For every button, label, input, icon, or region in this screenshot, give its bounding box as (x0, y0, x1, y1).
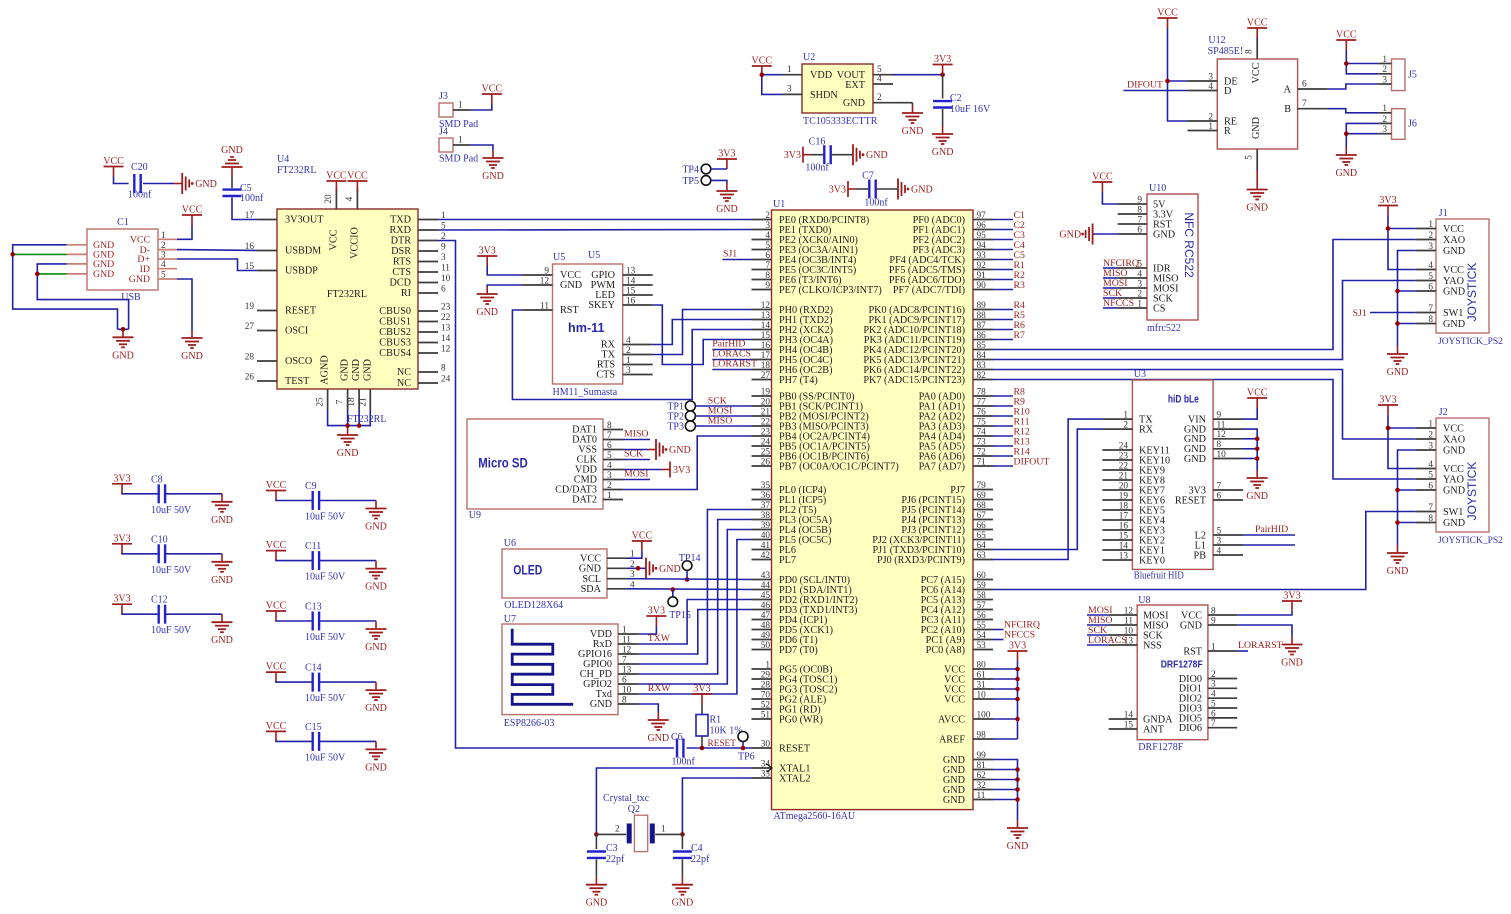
svg-text:TEST: TEST (285, 376, 310, 387)
U3 pin 18 KEY5 (1102, 509, 1132, 511)
U5 pin 2 TX (623, 354, 653, 356)
junction (1255, 437, 1260, 442)
U5 pin 13 GPIO (623, 274, 653, 276)
pin 10 DCD (418, 282, 438, 284)
svg-text:JOYSTICK_PS2: JOYSTICK_PS2 (1438, 337, 1503, 347)
U3 pin 20 KEY7 (1102, 489, 1132, 491)
svg-text:GND: GND (1443, 518, 1465, 529)
svg-text:GND: GND (482, 171, 504, 182)
svg-text:6: 6 (1211, 709, 1216, 719)
svg-text:VCC: VCC (1251, 62, 1262, 83)
svg-text:PD7 (T0): PD7 (T0) (779, 645, 818, 656)
svg-text:J6: J6 (1408, 119, 1417, 130)
wire U9 VDD to 3V3 (623, 469, 662, 471)
U1 pin 28 PG3 (TOSC2) (752, 688, 772, 690)
junction (700, 746, 705, 751)
junction (1395, 488, 1400, 493)
U1 pin 83 PK6 (ADC14/PCINT22) (973, 369, 993, 371)
U1 pin 25 PB6 (OC1B/PCINT6) (752, 455, 772, 457)
svg-text:VCC: VCC (266, 601, 287, 612)
net C3 (U1) (993, 239, 1013, 241)
svg-text:93: 93 (977, 251, 987, 261)
svg-text:47: 47 (761, 611, 771, 621)
svg-text:64: 64 (977, 541, 987, 551)
svg-text:GND: GND (1387, 367, 1409, 378)
svg-text:11: 11 (1217, 421, 1226, 431)
svg-text:CBUS0: CBUS0 (379, 306, 411, 317)
U1 pin 51 PG0 (WR) (752, 718, 772, 720)
net LORARST (U8 RST) (1237, 650, 1248, 652)
U1 pin 31 VCC (973, 688, 993, 690)
ground (J1) (1397, 346, 1399, 354)
ground (C4) (681, 877, 683, 885)
wire U10 GND to ground (1093, 233, 1118, 235)
U1 pin 62 GND (973, 779, 993, 781)
U1 pin 47 PD4 (ICP1) (752, 619, 772, 621)
svg-text:PF7 (ADC7/TDI): PF7 (ADC7/TDI) (893, 285, 965, 296)
svg-text:94: 94 (977, 241, 987, 251)
svg-text:C8: C8 (151, 474, 163, 485)
svg-text:8: 8 (622, 696, 627, 706)
U1 pin 64 PJ1 (TXD3/PCINT10) (973, 549, 993, 551)
U1 pin 79 PJ7 (973, 489, 993, 491)
U1 pin 66 PJ3 (PCINT12) (973, 529, 993, 531)
svg-text:OSCO: OSCO (285, 356, 312, 367)
junction (1344, 131, 1349, 136)
svg-text:GND: GND (1443, 246, 1465, 257)
svg-text:D: D (1224, 86, 1231, 97)
svg-text:GND: GND (351, 359, 362, 381)
net SCK (U8) (1087, 634, 1109, 636)
net SCK (U10) (1103, 297, 1118, 299)
svg-text:11: 11 (540, 302, 549, 312)
ground (C8) (221, 494, 223, 502)
svg-text:GND: GND (1246, 203, 1268, 214)
svg-text:LORARST: LORARST (1238, 640, 1283, 651)
svg-text:74: 74 (977, 427, 987, 437)
svg-text:69: 69 (977, 491, 987, 501)
wire U1 PJ1 to U3 RX (993, 429, 1102, 549)
wire 3V3 to U5 VCC (487, 266, 522, 275)
svg-text:C6: C6 (671, 732, 683, 743)
svg-text:DRF1278F: DRF1278F (1161, 659, 1203, 671)
connector J6 (1392, 109, 1406, 140)
svg-text:89: 89 (977, 301, 987, 311)
svg-text:71: 71 (977, 457, 987, 467)
svg-text:2: 2 (615, 825, 620, 835)
svg-text:4: 4 (161, 260, 166, 270)
svg-text:GND: GND (340, 359, 351, 381)
svg-text:10uF 16V: 10uF 16V (950, 104, 991, 115)
U12 pin 3 (1188, 80, 1218, 82)
svg-text:VCC: VCC (632, 531, 653, 542)
U5 pin 12 GND (523, 284, 553, 286)
U10 pin 9 5V (1118, 203, 1147, 205)
wire C6 to RESET pin (687, 747, 752, 749)
svg-text:8: 8 (765, 271, 770, 281)
wire U9 VSS to ground (623, 449, 648, 451)
U1 pin 58 PC5 (A13) (973, 599, 993, 601)
U3 pin 22 KEY9 (1102, 469, 1132, 471)
U3 pin 17 KEY4 (1102, 519, 1132, 521)
U1 pin 99 GND (973, 759, 993, 761)
svg-text:12: 12 (441, 345, 451, 355)
U12 pin 8 VCC (1256, 38, 1258, 59)
svg-text:ESP8266-03: ESP8266-03 (504, 718, 555, 729)
ground (C9) (375, 501, 377, 509)
wire U5 RST to U1 PH2 (512, 310, 751, 400)
svg-text:11: 11 (977, 791, 986, 801)
svg-text:GND: GND (590, 699, 612, 710)
ground (U12) (1256, 170, 1258, 182)
svg-text:OLED128X64: OLED128X64 (504, 600, 563, 611)
junction (35, 272, 40, 277)
wire C1 pin5 to ground (177, 279, 192, 330)
U8 pin 4 DIO2 (1208, 697, 1237, 699)
svg-text:GND: GND (211, 575, 233, 586)
svg-text:C9: C9 (305, 481, 317, 492)
net SJ1 (U1 PE4) (722, 259, 751, 261)
svg-text:9: 9 (544, 267, 549, 277)
svg-text:GND: GND (579, 564, 601, 575)
U1 pin 11 GND (973, 799, 993, 801)
svg-text:3: 3 (441, 253, 446, 263)
wire J1 GND pins to ground (1398, 251, 1416, 347)
svg-text:1: 1 (1382, 55, 1387, 65)
svg-text:C2: C2 (950, 93, 962, 104)
svg-text:76: 76 (977, 407, 987, 417)
ground (C2) (942, 126, 944, 134)
pin 5 RXD (418, 229, 438, 231)
svg-text:C13: C13 (305, 602, 322, 613)
svg-text:SJ1: SJ1 (1353, 308, 1367, 319)
wire U12 B to J6 pin1 (1328, 109, 1379, 113)
svg-text:FT232RL: FT232RL (347, 414, 386, 425)
U3 pin 10 GND (1213, 458, 1243, 460)
U1 pin 12 PH0 (RXD2) (752, 309, 772, 311)
svg-text:GND: GND (669, 445, 691, 456)
capacitor C15 (276, 740, 313, 741)
svg-text:3V3: 3V3 (113, 594, 130, 605)
svg-text:PB7 (OC0A/OC1C/PCINT7): PB7 (OC0A/OC1C/PCINT7) (779, 461, 899, 472)
svg-text:17: 17 (1119, 511, 1129, 521)
svg-text:RXD: RXD (389, 225, 411, 236)
svg-text:11: 11 (441, 264, 450, 274)
wire U1 GND rail (993, 760, 1018, 821)
U1 pin 50 PD7 (T0) (752, 649, 772, 651)
junction (1015, 797, 1020, 802)
svg-text:VCC: VCC (266, 480, 287, 491)
svg-text:5: 5 (1217, 526, 1222, 536)
svg-text:R3: R3 (1014, 280, 1026, 291)
svg-text:26: 26 (245, 373, 255, 383)
net MOSI (U9 CMD) (623, 479, 650, 481)
U1 pin 27 PH7 (T4) (752, 379, 772, 381)
svg-text:PL7: PL7 (779, 555, 796, 566)
U1 pin 86 PK3 (ADC11/PCINT19) (973, 339, 993, 341)
svg-text:24: 24 (1119, 441, 1129, 451)
svg-text:VCC: VCC (1443, 265, 1464, 276)
svg-text:4: 4 (1208, 82, 1213, 92)
junction (1015, 787, 1020, 792)
wire VCC to U3 VIN (1243, 408, 1257, 419)
U8 pin 13 NSS (1109, 644, 1138, 646)
U1 pin 87 PK2 (ADC10/PCINT18) (973, 329, 993, 331)
svg-text:18: 18 (1119, 501, 1129, 511)
svg-text:GND: GND (362, 359, 373, 381)
ground (C13) (375, 621, 377, 629)
U12 pin 2 (1188, 120, 1218, 122)
U1 pin 45 PD2 (RXD1/INT2) (752, 599, 772, 601)
svg-text:FT232RL: FT232RL (277, 165, 316, 176)
svg-text:17: 17 (761, 351, 771, 361)
capacitor C16 (811, 154, 824, 156)
svg-text:77: 77 (977, 397, 987, 407)
svg-text:SW1: SW1 (1443, 507, 1463, 518)
connector J4 (SMD Pad) (439, 138, 453, 152)
svg-text:73: 73 (977, 437, 987, 447)
U8 pin 3 DIO1 (1208, 687, 1237, 689)
U1 pin 59 PC6 (A14) (973, 589, 993, 591)
wire U5 SKEY to U1 PH3 (653, 305, 752, 365)
svg-text:100nf: 100nf (805, 163, 829, 174)
wire U2 GND to ground (893, 102, 913, 104)
svg-text:57: 57 (977, 601, 987, 611)
svg-text:65: 65 (977, 531, 987, 541)
U8 pin 9 GND (1208, 624, 1237, 626)
U3 pin 9 VIN (1213, 418, 1243, 420)
svg-text:12: 12 (540, 277, 550, 287)
junction (1386, 226, 1391, 231)
svg-text:27: 27 (245, 322, 255, 332)
ground (122, 329, 124, 337)
svg-text:GND: GND (221, 145, 243, 156)
svg-text:9: 9 (441, 243, 446, 253)
svg-text:91: 91 (977, 271, 987, 281)
svg-text:2: 2 (877, 93, 882, 103)
svg-text:3V3: 3V3 (829, 185, 846, 196)
U1 pin 43 PD0 (SCL/INT0) (752, 579, 772, 581)
U1 pin 41 PL6 (752, 549, 772, 551)
U1 pin 49 PD6 (T1) (752, 639, 772, 641)
svg-text:DIFOUT: DIFOUT (1014, 456, 1050, 467)
U1 pin 4 PE2 (XCK0/AIN0) (752, 239, 772, 241)
U1 pin 72 PA6 (AD6) (973, 455, 993, 457)
svg-text:11: 11 (1124, 616, 1133, 626)
pin 19 RESET (257, 310, 277, 312)
svg-text:52: 52 (761, 700, 771, 710)
svg-text:10uF 50V: 10uF 50V (305, 693, 346, 704)
svg-text:7: 7 (1211, 719, 1216, 729)
svg-text:8: 8 (1211, 606, 1216, 616)
svg-text:8: 8 (1217, 440, 1222, 450)
capacitor C11 (276, 560, 313, 561)
svg-text:RI: RI (401, 288, 412, 299)
U1 pin 70 PG2 (ALE) (752, 698, 772, 700)
svg-text:14: 14 (1124, 710, 1134, 720)
svg-text:PJ0 (RXD3/PCINT9): PJ0 (RXD3/PCINT9) (877, 555, 965, 566)
svg-text:9: 9 (765, 281, 770, 291)
svg-text:J1: J1 (1439, 208, 1448, 219)
svg-text:12: 12 (761, 301, 771, 311)
svg-text:23: 23 (761, 427, 771, 437)
svg-text:44: 44 (761, 581, 771, 591)
U1 pin 52 PG1 (RD) (752, 708, 772, 710)
J2 pin 1 VCC (1416, 427, 1436, 429)
svg-text:10uF 50V: 10uF 50V (151, 505, 192, 516)
svg-text:GND: GND (943, 795, 965, 806)
capacitor C10 (122, 553, 159, 554)
svg-text:1: 1 (622, 626, 627, 636)
svg-text:VCC: VCC (266, 662, 287, 673)
svg-text:GND: GND (911, 185, 933, 196)
svg-text:4: 4 (1217, 546, 1222, 556)
net NFCCS (U10) (1103, 307, 1118, 309)
svg-text:3V3: 3V3 (673, 465, 690, 476)
U8 pin 2 DIO0 (1208, 678, 1237, 680)
wire C1 GND pins to ground (13, 245, 118, 329)
svg-text:79: 79 (977, 481, 987, 491)
svg-text:B: B (1284, 104, 1291, 115)
svg-text:TP5: TP5 (682, 176, 699, 187)
svg-text:U1: U1 (773, 199, 785, 210)
connector J3 (SMD Pad) (439, 103, 453, 117)
svg-text:GND: GND (129, 274, 150, 285)
ground (U8) (1291, 637, 1293, 645)
U1 pin 30 RESET (752, 747, 772, 749)
svg-text:3V3: 3V3 (1379, 395, 1396, 406)
svg-text:1: 1 (765, 660, 770, 670)
wire TP5 to ground (711, 180, 727, 183)
svg-text:GND: GND (1184, 454, 1206, 465)
wire VCC to U12 DE/RE (1168, 28, 1188, 121)
junction (685, 577, 690, 582)
svg-text:6: 6 (1428, 481, 1433, 491)
wire TP14 to SCL (686, 570, 688, 579)
U6 pin 3 SCL (607, 578, 627, 580)
junction (940, 72, 945, 77)
U7 pin 8 GND (618, 703, 638, 705)
svg-text:GND: GND (365, 522, 387, 533)
svg-text:6: 6 (607, 441, 612, 451)
svg-text:C16: C16 (809, 137, 826, 148)
svg-text:PB: PB (1194, 550, 1207, 561)
svg-text:22pf: 22pf (691, 854, 710, 865)
svg-text:CBUS2: CBUS2 (379, 327, 411, 338)
svg-text:36: 36 (761, 491, 771, 501)
pin 6 RI (418, 292, 438, 294)
connector U9 Micro SD (467, 419, 603, 509)
svg-text:VCC: VCC (482, 84, 503, 95)
svg-text:VCC: VCC (1247, 388, 1268, 399)
wire TP1 to U1 (695, 405, 751, 407)
ground (191, 330, 193, 338)
U3 pin 21 KEY8 (1102, 479, 1132, 481)
svg-text:USBDP: USBDP (285, 266, 318, 277)
U9 pin 8 DAT1 (603, 429, 623, 431)
net R6 (U1) (993, 329, 1013, 331)
junction (357, 423, 362, 428)
svg-text:RST: RST (560, 305, 579, 316)
U7 pin 13 CH_PD (618, 673, 638, 675)
svg-text:15: 15 (761, 331, 771, 341)
svg-text:8: 8 (1428, 514, 1433, 524)
svg-text:USB: USB (121, 292, 141, 303)
svg-text:3V3: 3V3 (648, 606, 665, 617)
svg-text:7: 7 (1428, 304, 1433, 314)
svg-text:RXW: RXW (648, 683, 672, 694)
svg-text:100: 100 (977, 710, 991, 720)
U1 pin 80 VCC (973, 668, 993, 670)
U7 pin 12 GPIO16 (618, 653, 638, 655)
svg-text:23: 23 (1119, 451, 1129, 461)
svg-text:2: 2 (1382, 65, 1387, 75)
svg-text:GND: GND (93, 269, 114, 280)
svg-text:J2: J2 (1439, 407, 1448, 418)
svg-text:VCCIO: VCCIO (349, 227, 360, 259)
svg-text:53: 53 (977, 641, 987, 651)
svg-text:66: 66 (977, 521, 987, 531)
U1 pin 33 XTAL2 (752, 777, 772, 779)
svg-text:3: 3 (765, 221, 770, 231)
svg-text:RTS: RTS (393, 257, 411, 268)
svg-text:15: 15 (626, 287, 636, 297)
svg-text:VCC: VCC (182, 205, 203, 216)
svg-text:VCC: VCC (328, 229, 339, 250)
svg-text:16: 16 (626, 297, 636, 307)
U1 pin 19 PB0 (SS/PCINT0) (752, 395, 772, 397)
U6 pin 4 SDA (607, 588, 627, 590)
svg-text:1: 1 (1137, 299, 1142, 309)
junction (10, 252, 15, 257)
junction (1015, 667, 1020, 672)
U10 pin 3 MOSI (1118, 287, 1147, 289)
wire TP3 to U1 (695, 425, 751, 427)
junction (1015, 717, 1020, 722)
svg-text:4: 4 (345, 196, 355, 201)
svg-text:SKEY: SKEY (588, 300, 615, 311)
pin 2 GND (873, 102, 893, 104)
U5 pin 4 RX (623, 344, 653, 346)
U10 pin 8 3.3V (1118, 213, 1147, 215)
wire DTR to C6/RESET (438, 241, 674, 749)
J2 pin 7 SW1 (1416, 511, 1436, 513)
svg-text:RESET: RESET (1175, 495, 1207, 506)
svg-text:CTS: CTS (392, 267, 411, 278)
U1 pin 37 PL2 (T5) (752, 509, 772, 511)
wire VCC to U10 5V (1102, 192, 1117, 204)
svg-text:87: 87 (977, 321, 987, 331)
net R7 (U1) (993, 339, 1013, 341)
U12 pin 1 (1188, 130, 1218, 132)
svg-text:10: 10 (622, 686, 632, 696)
pin 5 VOUT (873, 74, 893, 76)
U1 pin 29 PG4 (TOSC1) (752, 678, 772, 680)
U8 pin 12 MOSI (1109, 614, 1138, 616)
U10 pin 6 GND (1118, 233, 1147, 235)
pin 7 GND (347, 389, 349, 410)
U5 pin 9 VCC (523, 274, 553, 276)
U1 pin 90 PF7 (ADC7/TDI) (973, 289, 993, 291)
svg-text:60: 60 (977, 571, 987, 581)
svg-text:35: 35 (761, 481, 771, 491)
U1 pin 1 PG5 (OC0B) (752, 668, 772, 670)
svg-text:C15: C15 (305, 722, 322, 733)
svg-text:5: 5 (765, 241, 770, 251)
svg-text:3: 3 (1428, 441, 1433, 451)
wire U7 RxD to U1 PD2 (638, 600, 752, 645)
svg-text:RX: RX (1139, 425, 1154, 436)
